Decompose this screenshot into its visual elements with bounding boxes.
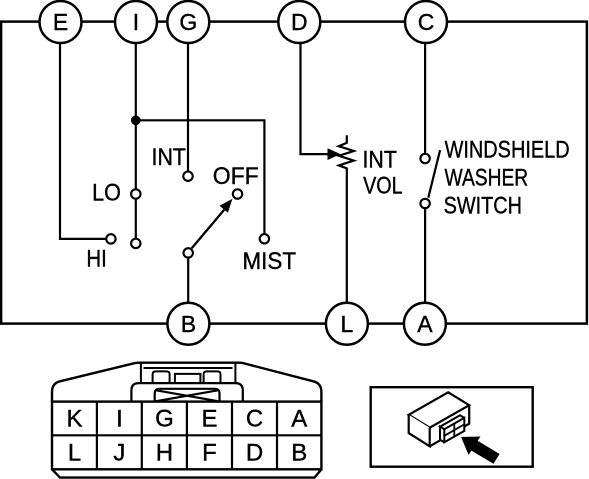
wire E vertical to HI xyxy=(60,43,111,239)
terminal L xyxy=(326,303,368,345)
contact LO xyxy=(131,189,140,198)
relay socket top face xyxy=(440,415,464,429)
svg-text:MIST: MIST xyxy=(243,248,297,275)
connector bottom skirt xyxy=(52,469,321,477)
svg-text:HI: HI xyxy=(86,246,106,273)
wire washer switch to A xyxy=(424,204,426,304)
contact MIST xyxy=(260,234,269,243)
wire D to resistor arrow xyxy=(301,43,330,154)
svg-text:D: D xyxy=(246,440,263,467)
terminal G xyxy=(167,1,209,43)
wire C to washer switch xyxy=(424,43,426,159)
washer switch blade xyxy=(428,150,440,198)
relay body left face xyxy=(409,415,430,447)
wiper blade arrow to OFF xyxy=(192,210,225,249)
wire I vertical through junction to LO contacts xyxy=(135,43,137,243)
svg-text:LO: LO xyxy=(92,179,121,206)
connector collar xyxy=(131,383,242,402)
contact INT xyxy=(183,172,192,181)
terminal D xyxy=(278,1,320,43)
svg-text:B: B xyxy=(291,440,307,467)
svg-text:J: J xyxy=(113,440,125,467)
svg-text:I: I xyxy=(133,9,139,35)
relay body right face xyxy=(430,405,470,446)
relay socket left face xyxy=(440,427,444,443)
contact below LO xyxy=(131,239,140,248)
svg-text:A: A xyxy=(291,406,307,433)
terminal A xyxy=(404,303,446,345)
node junction dot xyxy=(131,116,141,126)
relay socket dividers xyxy=(444,424,464,437)
wire G to INT contact xyxy=(187,43,189,176)
connector cap inner line xyxy=(141,364,236,384)
svg-text:VOL: VOL xyxy=(363,172,403,199)
svg-text:L: L xyxy=(68,440,81,467)
connector pin grid xyxy=(52,402,321,470)
contact HI xyxy=(106,234,115,243)
svg-text:INT: INT xyxy=(363,147,398,174)
wire junction to MIST xyxy=(136,120,265,239)
svg-text:INT: INT xyxy=(152,144,187,171)
connector latch tab middle xyxy=(175,374,201,383)
connector latch tab left xyxy=(153,371,170,383)
svg-text:D: D xyxy=(291,9,308,35)
relay inset box xyxy=(371,387,533,467)
contact OFF xyxy=(233,189,242,198)
contact wiper pivot xyxy=(184,248,193,257)
connector housing outline xyxy=(52,363,321,402)
svg-text:A: A xyxy=(417,311,433,337)
wire B to wiper pivot xyxy=(187,253,189,303)
resistor R INT VOL xyxy=(339,135,354,303)
svg-text:L: L xyxy=(341,311,354,337)
contact washer lower xyxy=(420,199,429,208)
connector crossed box xyxy=(155,389,220,402)
svg-text:C: C xyxy=(246,406,263,433)
svg-text:B: B xyxy=(181,311,196,337)
svg-text:I: I xyxy=(116,406,123,433)
svg-text:G: G xyxy=(179,9,197,35)
svg-text:K: K xyxy=(66,406,82,433)
connector latch tab right xyxy=(204,371,221,383)
arrowhead into resistor xyxy=(328,148,341,160)
svg-text:F: F xyxy=(202,440,217,467)
contact washer upper xyxy=(420,154,429,163)
schematic border frame xyxy=(1,22,587,324)
svg-text:E: E xyxy=(53,9,68,35)
svg-text:WINDSHIELD: WINDSHIELD xyxy=(445,137,570,164)
svg-text:SWITCH: SWITCH xyxy=(444,193,522,220)
svg-text:H: H xyxy=(156,440,173,467)
terminal I xyxy=(115,1,157,43)
relay body top face xyxy=(409,392,470,427)
relay pointer arrow xyxy=(461,437,500,464)
terminal B xyxy=(167,303,209,345)
svg-text:OFF: OFF xyxy=(213,163,259,190)
svg-text:C: C xyxy=(418,9,435,35)
relay socket front face xyxy=(444,418,464,442)
svg-text:WASHER: WASHER xyxy=(445,165,529,192)
svg-text:G: G xyxy=(155,406,174,433)
terminal C xyxy=(405,1,447,43)
svg-text:E: E xyxy=(201,406,217,433)
terminal E xyxy=(40,1,82,43)
